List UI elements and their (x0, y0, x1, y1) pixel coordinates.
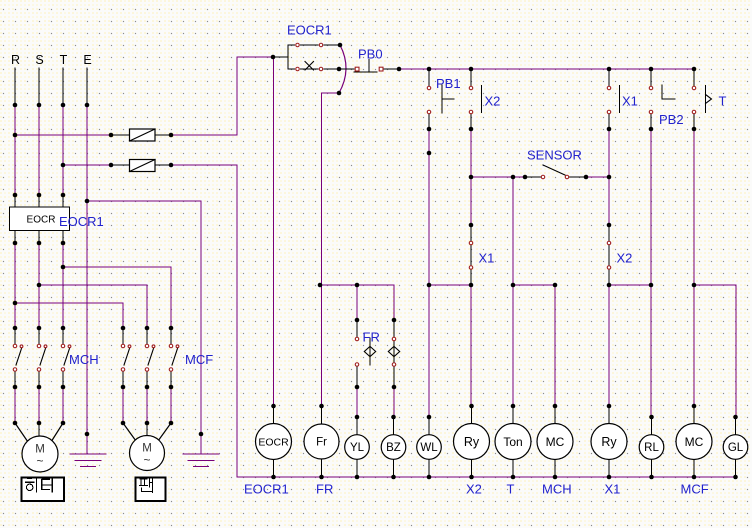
wire EOCR1 column to coil (273, 57, 275, 407)
wire MC2 coil column (693, 285, 695, 406)
node motor1 terminals (13, 421, 18, 426)
wire S pin to EOCR box (38, 195, 40, 207)
lamp GL (735, 417, 737, 477)
wire T column (62, 105, 64, 328)
lamp RL (651, 417, 653, 477)
pushbutton PB1 (NO start) (429, 69, 454, 129)
node EOCR1 contact input (271, 55, 276, 60)
svg-text:YL: YL (350, 442, 365, 454)
wire YL column lower (356, 387, 358, 417)
node fuse F2 row (61, 163, 66, 168)
label box fan (136, 478, 166, 502)
PB1 terminals (427, 86, 431, 90)
label box heater (22, 478, 65, 502)
svg-text:EOCR1: EOCR1 (244, 482, 289, 497)
svg-text:MC: MC (546, 435, 565, 449)
wire T branch lower (693, 129, 695, 285)
contactor MCH pole 1 (15, 328, 22, 387)
wire fuse F2 output to left control rail (171, 165, 237, 477)
contact EOCR1 (overload relay contact) (273, 45, 340, 70)
svg-text:WL: WL (420, 442, 438, 454)
wire X2 branch to sensor line (470, 129, 472, 225)
contact X2 (lower, on X1 branch) (608, 225, 610, 285)
node lamp tops (355, 415, 360, 420)
pushbutton PB0 (NC stop) (339, 60, 399, 72)
wire S column (38, 105, 40, 328)
wire mid bus segment WL-Ry (429, 284, 471, 286)
FR-a terminals (355, 337, 359, 341)
fuse F2 leads (111, 164, 171, 166)
node EOCR1 contact pins (338, 43, 343, 48)
wire T pin to EOCR box (62, 195, 64, 207)
svg-text:Ry: Ry (464, 435, 480, 449)
wire YL column upper (356, 285, 358, 320)
wire sensor line right (586, 176, 609, 178)
wire R column (14, 105, 16, 328)
wire BZ column lower (393, 387, 395, 417)
svg-text:T: T (60, 53, 68, 67)
svg-text:MCH: MCH (69, 352, 99, 367)
EOCR1 contact terminals (296, 43, 300, 47)
node top rail branches (427, 67, 432, 72)
wire phase S lead-in (38, 68, 40, 105)
SENSOR terminals (541, 175, 545, 179)
svg-text:FR: FR (363, 330, 380, 345)
svg-text:GL: GL (728, 442, 744, 454)
wire R pin below EOCR box (14, 231, 16, 244)
svg-text:BZ: BZ (386, 442, 401, 454)
lamp BZ (393, 417, 395, 477)
wire Ton coil column (512, 285, 514, 406)
wire fuse F1 input from R (15, 134, 111, 136)
ground symbol G1 (heater) (70, 454, 106, 467)
bottom net labels (244, 482, 709, 497)
svg-text:MCF: MCF (681, 482, 709, 497)
wire T pin below EOCR box (62, 231, 64, 244)
node coil tops (271, 404, 276, 409)
hangul text heater (25, 478, 52, 493)
wire S pin below EOCR box (38, 231, 40, 244)
wire E column to ground (86, 105, 88, 454)
node E tap (85, 199, 90, 204)
coil Ton (timer) (512, 406, 514, 477)
node R/S/T/E feeders (13, 103, 18, 108)
wire fuse F2 input from T (63, 164, 111, 166)
svg-text:X1: X1 (605, 482, 621, 497)
node sensor row (469, 175, 474, 180)
wire E to second ground (87, 201, 201, 454)
wire phase E lead-in (86, 68, 88, 105)
wire mid bus segment Ton-MC (513, 284, 555, 286)
relay EOCR box U1 (10, 207, 70, 231)
pushbutton PB0 terminals (355, 67, 383, 71)
wire MCF pole outputs to motor2 (123, 387, 171, 423)
fuse F1 body (130, 129, 156, 141)
contactor MCH pole 2 (39, 328, 46, 387)
node fuse F1 row (13, 133, 18, 138)
wire X1 branch lower (608, 129, 610, 225)
node FR contact bottoms (355, 385, 360, 390)
svg-text:X2: X2 (466, 482, 482, 497)
X1 top terminals (607, 86, 611, 90)
wire phase R lead-in (14, 68, 16, 105)
node above lower contacts (469, 223, 474, 228)
node S tap (37, 283, 42, 288)
svg-text:R: R (11, 53, 20, 67)
node MCF pole tops (121, 326, 126, 331)
node MCF pole bottoms (121, 385, 126, 390)
wire Ry coil column (470, 285, 472, 406)
motor M1 (heater) (15, 423, 63, 472)
svg-text:X1: X1 (622, 94, 638, 109)
node bottom rail (271, 475, 276, 480)
contactor MCF pole 3 (171, 328, 178, 387)
svg-text:PB2: PB2 (659, 112, 684, 127)
wire MC coil column (554, 285, 556, 406)
contact FR-b (flicker, to BZ) (388, 320, 399, 387)
coil Fr (321, 406, 323, 477)
wire Ry2 coil column (608, 285, 610, 406)
MCH pole terminals (13, 344, 17, 348)
node FR contact tops (355, 318, 360, 323)
svg-text:~: ~ (143, 453, 150, 467)
coil Ry (X2 relay) (471, 406, 473, 477)
coil MC (MCH) (554, 406, 556, 477)
node PB1 branch joint (427, 151, 432, 156)
node MCH pole tops (13, 326, 18, 331)
svg-text:MC: MC (685, 435, 704, 449)
node MCH pole bottoms (13, 385, 18, 390)
wire phase T lead-in (62, 68, 64, 105)
wire Ton column (512, 177, 514, 285)
fuse F2 body (130, 160, 156, 172)
wire T tap to MCF pole 3 (63, 267, 171, 328)
svg-text:Ton: Ton (503, 435, 522, 449)
wire mid bus segment MC2-GL (694, 285, 736, 417)
svg-text:E: E (83, 53, 91, 67)
X2 top terminals (469, 86, 473, 90)
pushbutton PB2 (NO) (651, 69, 675, 129)
svg-text:Fr: Fr (316, 437, 327, 449)
coil EOCR (273, 406, 275, 477)
wire EOCR1 arc to Fr column (322, 93, 340, 407)
svg-text:RL: RL (644, 442, 659, 454)
hangul text fan (139, 478, 153, 493)
svg-text:T: T (719, 94, 727, 109)
wire bottom rail (237, 476, 736, 478)
wire fuse F1 output to control rail riser (171, 57, 237, 135)
timer contact T (694, 69, 712, 129)
wire WL column (428, 285, 430, 417)
svg-text:S: S (35, 53, 43, 67)
motor M2 (fan) (123, 423, 171, 471)
svg-text:MCH: MCH (542, 482, 572, 497)
lamp YL (356, 417, 358, 477)
wire S tap to MCF pole 2 (39, 285, 147, 328)
wire PB1 branch lower (428, 129, 430, 285)
wire R tap to MCF pole 1 (15, 303, 123, 328)
node motor2 terminals (121, 421, 126, 426)
node PB0 output (397, 67, 402, 72)
contact X1 (lower, on X2 branch) (470, 225, 472, 285)
svg-text:T: T (507, 482, 515, 497)
wire mid bus segment Ry2-RL (609, 284, 651, 286)
wire sensor line left (471, 176, 525, 178)
svg-text:MCF: MCF (185, 352, 213, 367)
X1 lower terminals (469, 241, 473, 245)
wire MCH pole outputs to motor1 (15, 387, 63, 423)
svg-text:EOCR: EOCR (258, 437, 289, 449)
MCF pole terminals (121, 344, 125, 348)
node EOCR box pins top (13, 193, 18, 198)
contact FR-a (flicker, to YL) (357, 320, 376, 387)
wire RL column (650, 285, 652, 417)
svg-text:PB1: PB1 (436, 76, 461, 91)
ground symbol G2 (fan) (183, 454, 219, 467)
coil circle texts (258, 435, 743, 454)
wire BZ column upper (393, 285, 395, 320)
phase labels R S T E (11, 53, 92, 67)
svg-text:FR: FR (316, 482, 333, 497)
coil Ry2 (X1 relay) (608, 406, 610, 477)
wire R pin to EOCR box (14, 195, 16, 207)
svg-text:EOCR1: EOCR1 (287, 23, 332, 38)
contactor MCF pole 1 (123, 328, 130, 387)
svg-text:EOCR1: EOCR1 (59, 214, 104, 229)
svg-text:SENSOR: SENSOR (527, 148, 582, 163)
node below top contacts (427, 127, 432, 132)
switch SENSOR (525, 165, 586, 177)
lamp WL (428, 417, 430, 477)
coil MC2 (MCF) (693, 406, 695, 477)
contact X2 NO (top) (471, 69, 482, 129)
contact X1 NO (top right) (609, 69, 620, 129)
node T tap (61, 265, 66, 270)
svg-text:Ry: Ry (601, 435, 617, 449)
svg-text:X1: X1 (479, 251, 495, 266)
T terminals (692, 86, 696, 90)
X2 lower terminals (607, 241, 611, 245)
wire PB2 branch lower (650, 129, 652, 285)
wire mid bus segment FR (320, 284, 394, 286)
svg-text:X2: X2 (485, 94, 501, 109)
contactor MCH pole 3 (63, 328, 70, 387)
fuse F1 leads (111, 134, 171, 136)
FR-b terminals (392, 337, 396, 341)
svg-text:~: ~ (36, 454, 43, 468)
node ground leads (85, 432, 90, 437)
wire top rail PB0 to T branch (399, 68, 694, 70)
arc EOCR1 contact right side (339, 45, 346, 93)
terminal circles (red) (13, 43, 696, 371)
PB2 terminals (649, 86, 653, 90)
wire control feed to EOCR1 contact (237, 56, 273, 58)
svg-text:X2: X2 (617, 251, 633, 266)
node EOCR box pins bottom (13, 241, 18, 246)
node R tap (13, 301, 18, 306)
contactor MCF pole 2 (147, 328, 154, 387)
node mid bus (318, 283, 323, 288)
svg-text:PB0: PB0 (358, 47, 383, 62)
svg-text:EOCR: EOCR (27, 215, 56, 226)
